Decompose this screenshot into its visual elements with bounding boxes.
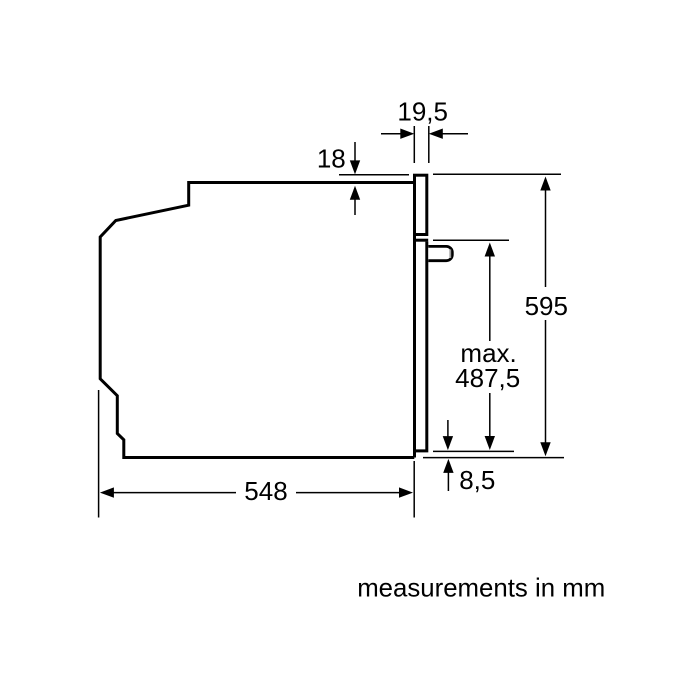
- dimension 8,5 down arrow: [443, 420, 453, 450]
- dimension 8,5 up arrow: [443, 459, 453, 491]
- dimension 595 top extension line: [433, 173, 561, 175]
- dimension 595 bottom extension line: [423, 457, 564, 459]
- oven body outline: [100, 183, 414, 458]
- dimension 18 reference line: [339, 174, 409, 176]
- dimension max 487,5 line upper segment with up arrow: [485, 243, 495, 342]
- dimension label 18: [317, 144, 346, 174]
- dimension 18 down arrow: [350, 142, 360, 174]
- oven front face line: [413, 175, 416, 457]
- dimension label 595: [525, 291, 568, 321]
- dimension 19,5 extension line right: [428, 126, 430, 163]
- dimension 19,5 extension line left: [413, 126, 415, 163]
- dimension label 19,5: [397, 96, 448, 126]
- dimension label 8,5: [459, 465, 495, 495]
- svg-text:548: 548: [244, 476, 287, 506]
- dimension 18 up arrow: [350, 186, 360, 215]
- svg-text:19,5: 19,5: [397, 96, 448, 126]
- panel/door seam: [413, 239, 428, 242]
- dimension max 487,5 top extension line: [433, 239, 509, 241]
- caption measurements in mm: [357, 575, 605, 603]
- dimension 548 left segment with left arrow: [100, 487, 236, 497]
- dimension label max.: [460, 338, 516, 368]
- svg-text:measurements in mm: measurements in mm: [357, 575, 605, 603]
- oven door: [415, 242, 427, 451]
- dimension 548 right extension line: [413, 461, 415, 518]
- svg-text:8,5: 8,5: [459, 465, 495, 495]
- dimension label 548: [244, 476, 287, 506]
- dimension 19,5 left arrow: [381, 129, 414, 139]
- svg-text:595: 595: [525, 291, 568, 321]
- svg-text:18: 18: [317, 144, 346, 174]
- dimension 595 line lower segment with down arrow: [540, 320, 550, 456]
- dimension 19,5 right arrow: [429, 129, 468, 139]
- dimension label 487,5: [455, 363, 520, 393]
- control panel: [415, 175, 427, 234]
- svg-text:487,5: 487,5: [455, 363, 520, 393]
- dimension 548 left extension line: [98, 390, 100, 518]
- dimension 548 right segment with right arrow: [296, 487, 413, 497]
- dimension max 487,5 bottom extension line: [433, 450, 514, 452]
- door handle knob: [428, 246, 452, 260]
- dimension 595 line upper segment with up arrow: [540, 177, 550, 288]
- dimension max 487,5 line lower segment with down arrow: [485, 393, 495, 450]
